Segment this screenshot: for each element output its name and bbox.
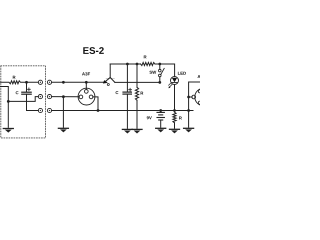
- resistor R (series): [141, 62, 156, 65]
- capacitor C (mic internal, polarized): [26, 82, 28, 91]
- plug arrow: [103, 80, 108, 83]
- node: [158, 63, 161, 66]
- wire C to terminal 3: [27, 94, 39, 110]
- wire row1 (hot): [52, 81, 106, 83]
- wire element to terminal 2: [8, 97, 38, 102]
- connector A3M (cut off at right edge): [189, 82, 200, 127]
- resistor R (LED series to gnd): [173, 112, 176, 123]
- ground: [3, 129, 13, 133]
- LED emission arrows: [169, 83, 173, 88]
- phone jack: [109, 64, 111, 78]
- wire to ground: [62, 97, 64, 128]
- wire XLR pin3 to bus: [93, 97, 98, 111]
- node: [136, 63, 139, 66]
- node: [85, 81, 88, 84]
- ground: [156, 128, 166, 132]
- node: [126, 63, 129, 66]
- capacitor C (polarized, shunt): [126, 64, 128, 92]
- ground: [170, 129, 180, 133]
- mic element (cut off at left edge): [0, 87, 8, 128]
- wire: [155, 64, 175, 77]
- wire row2 (cold): [52, 96, 80, 98]
- resistor R (shunt): [136, 64, 138, 87]
- wire jack to switch: [115, 81, 160, 83]
- wire row3 / ground bus: [52, 110, 193, 112]
- dashed enclosure (microphone): [1, 66, 46, 138]
- LED: [171, 77, 179, 85]
- ground: [132, 129, 142, 133]
- connector terminals (mic side): [38, 80, 42, 84]
- switch SW: [159, 64, 161, 69]
- top rail: [110, 63, 140, 65]
- node R/C junction: [25, 81, 28, 84]
- resistor R (mic internal): [0, 81, 38, 84]
- ground: [58, 128, 68, 132]
- ground: [184, 128, 194, 132]
- node: [97, 109, 100, 112]
- connector A3F: [78, 88, 95, 105]
- ground: [122, 129, 132, 133]
- node: [62, 81, 65, 84]
- wire to XLR pin2: [85, 82, 87, 89]
- node element junction: [7, 100, 10, 103]
- connector terminals (cable side): [47, 80, 51, 84]
- title ES-2: [83, 47, 104, 54]
- node: [62, 95, 65, 98]
- battery 9V: [160, 111, 162, 113]
